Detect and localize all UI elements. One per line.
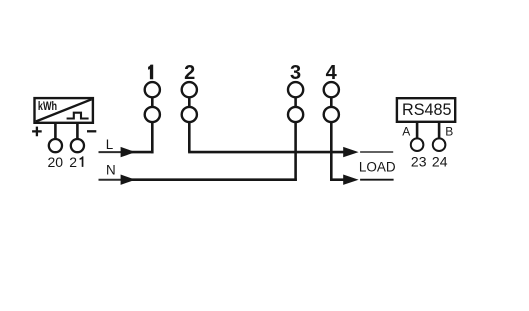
svg-text:2: 2 bbox=[69, 154, 77, 170]
svg-text:24: 24 bbox=[432, 154, 448, 170]
svg-text:kWh: kWh bbox=[38, 99, 57, 113]
svg-text:2: 2 bbox=[184, 62, 195, 84]
svg-text:N: N bbox=[106, 162, 116, 177]
svg-text:A: A bbox=[402, 124, 410, 138]
svg-text:RS485: RS485 bbox=[402, 101, 452, 119]
svg-text:23: 23 bbox=[411, 154, 427, 170]
svg-text:L: L bbox=[106, 137, 113, 152]
svg-text:LOAD: LOAD bbox=[359, 159, 396, 174]
svg-text:3: 3 bbox=[290, 62, 301, 84]
svg-text:4: 4 bbox=[326, 62, 338, 84]
svg-text:B: B bbox=[445, 124, 453, 138]
svg-text:20: 20 bbox=[48, 154, 64, 170]
